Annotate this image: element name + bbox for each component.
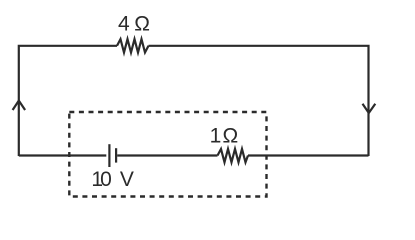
svg-text:V: V <box>120 168 134 191</box>
svg-text:1: 1 <box>210 125 222 148</box>
svg-text:Ω: Ω <box>223 125 239 148</box>
svg-text:4: 4 <box>118 12 130 35</box>
svg-text:Ω: Ω <box>134 12 150 35</box>
svg-text:0: 0 <box>100 168 112 191</box>
